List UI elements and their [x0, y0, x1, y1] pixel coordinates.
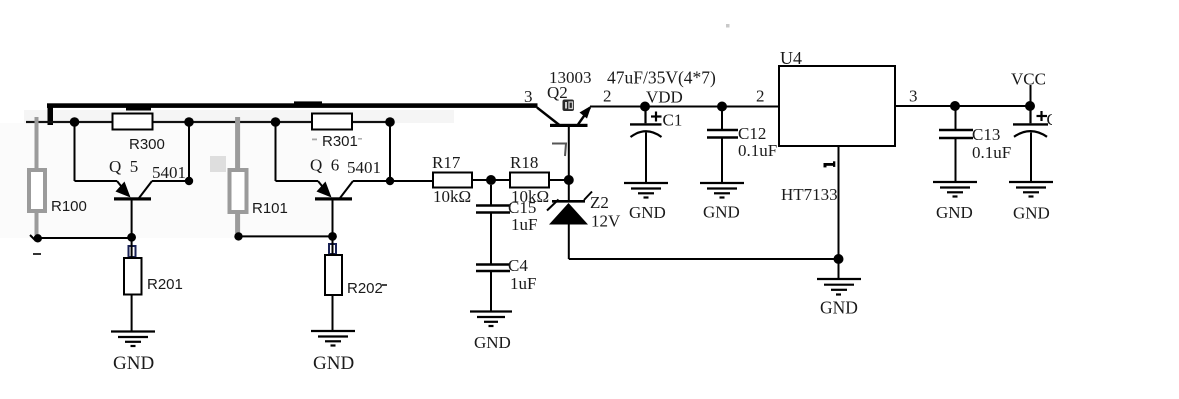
op-amp U4 regulator HT7133: [779, 66, 895, 146]
wire: thick bus overlap stroke above: [294, 101, 322, 104]
wire: Q6 collector to R17: [390, 180, 433, 182]
svg-text:C4: C4: [508, 256, 528, 275]
artifact mark above R201: [129, 246, 136, 257]
svg-text:U4: U4: [780, 48, 802, 68]
svg-text:1uF: 1uF: [510, 274, 536, 293]
Q5 base bar: [114, 197, 151, 200]
wire: base row Q5: [38, 237, 132, 239]
svg-text:1uF: 1uF: [511, 215, 537, 234]
Q6 emitter arrowhead: [317, 182, 332, 198]
capacitor C4: [476, 263, 510, 265]
Q5 base lead: [131, 200, 133, 237]
transistor Q5 (5401 PNP): [75, 122, 190, 198]
wire: U4 pin3: [895, 105, 1030, 107]
svg-text:VCC: VCC: [1011, 70, 1046, 89]
artifact mark above R202: [329, 244, 336, 254]
svg-text:R100: R100: [51, 198, 87, 215]
svg-text:R17: R17: [432, 153, 461, 172]
svg-text:Q 5: Q 5: [109, 157, 138, 176]
resistor R100 (grey): [29, 117, 45, 235]
wire: C1 to ground: [645, 133, 647, 184]
node A (74,122): [70, 117, 80, 127]
ground under C1: [624, 183, 668, 198]
Q5 collector corner node: [185, 177, 193, 185]
ground under R201: [111, 332, 155, 347]
wire: [490, 213, 492, 264]
svg-text:C1: C1: [663, 111, 683, 130]
svg-text:GND: GND: [1013, 204, 1050, 223]
capacitor C15: [490, 185, 492, 205]
resistor R101 (grey): [230, 117, 247, 233]
node C12: [717, 102, 727, 112]
Q2 emitter arrowhead: [580, 106, 592, 119]
resistor R17: [433, 173, 472, 188]
node: R100 bottom junction: [34, 234, 42, 242]
wire: R201 to ground: [131, 295, 133, 332]
pin 1 label (U4, rotated digit): [824, 161, 836, 167]
ground under C12: [700, 183, 744, 198]
svg-text:R18: R18: [510, 153, 538, 172]
resistor R202: [332, 240, 334, 255]
wire: [490, 271, 492, 312]
artifact glyph near Q2: [563, 100, 575, 112]
svg-text:10kΩ: 10kΩ: [433, 187, 471, 206]
svg-text:R101: R101: [252, 200, 288, 217]
svg-text:Z2: Z2: [590, 193, 609, 212]
transistor Q6 (5401 PNP): [276, 122, 391, 198]
svg-text:GND: GND: [474, 333, 511, 352]
ground under C14: [1009, 182, 1053, 197]
svg-text:HT7133: HT7133: [781, 185, 838, 204]
wire: VCC stub: [1030, 85, 1032, 106]
wire: thin top rail: [26, 121, 390, 123]
capacitor C14 (polar, cut at edge): [1029, 106, 1031, 123]
wire: VDD rail: [590, 106, 779, 108]
node VCC: [1025, 101, 1035, 111]
capacitor C1 (polar): [644, 107, 646, 124]
resistor R18: [510, 173, 549, 188]
wire: Z2 to U4 gnd rail: [569, 258, 839, 260]
node C13: [950, 101, 960, 111]
wire: thick top bus: [47, 103, 538, 108]
svg-text:GND: GND: [703, 203, 740, 222]
svg-text:VDD: VDD: [646, 88, 683, 107]
wire: U4 gnd pin: [838, 146, 840, 259]
svg-text:R202: R202: [347, 280, 383, 297]
Q6 collector corner node: [386, 177, 394, 185]
wire: [472, 179, 510, 181]
svg-text:5401: 5401: [347, 158, 381, 177]
zener diode Z2: [568, 180, 570, 202]
svg-text:2: 2: [603, 87, 612, 106]
Q2 base lead: [568, 127, 570, 180]
svg-text:GND: GND: [820, 298, 858, 318]
resistor R301: [312, 114, 352, 130]
svg-text:12V: 12V: [591, 212, 621, 231]
node B (189,122): [184, 117, 194, 127]
svg-text:GND: GND: [629, 203, 666, 222]
resistor R201: [131, 241, 133, 258]
ground under U4: [817, 279, 861, 295]
artifact tick after R202: [382, 284, 387, 286]
svg-text:GND: GND: [936, 203, 973, 222]
svg-text:GND: GND: [313, 353, 354, 374]
node A2 (275,122): [271, 117, 281, 127]
svg-text:R300: R300: [129, 136, 165, 153]
node: U4 gnd junction: [834, 254, 844, 264]
Q5 emitter arrowhead: [116, 182, 131, 198]
artifact ticks around R301 label: [312, 139, 317, 141]
node: Q6 base junction: [328, 232, 337, 241]
svg-text:3: 3: [524, 87, 533, 106]
node: R17/R18 junction: [486, 175, 496, 185]
wire: thick bus left stub: [48, 104, 54, 125]
Q6 base lead: [332, 200, 334, 236]
node B2 (390,122): [385, 117, 395, 127]
svg-text:Q 6: Q 6: [310, 156, 339, 175]
capacitor C13: [955, 106, 957, 130]
svg-text:5401: 5401: [152, 163, 186, 182]
svg-text:2: 2: [756, 87, 765, 106]
svg-text:47uF/35V(4*7): 47uF/35V(4*7): [607, 68, 716, 88]
svg-text:0.1uF: 0.1uF: [738, 141, 777, 160]
svg-text:C13: C13: [972, 125, 1000, 144]
node: R101 bottom junction: [234, 232, 242, 240]
ground under C4: [470, 312, 512, 327]
ground under R202: [311, 331, 355, 346]
transistor Q2 (13003 NPN): [537, 108, 560, 126]
svg-text:0.1uF: 0.1uF: [972, 143, 1011, 162]
svg-text:GND: GND: [113, 353, 154, 374]
svg-text:13003: 13003: [549, 68, 592, 87]
wire: [549, 179, 569, 181]
capacitor C12: [721, 107, 723, 130]
node: Q5 base junction: [127, 233, 136, 242]
wire: thick bus overlap stroke below: [126, 107, 151, 111]
svg-text:R301: R301: [322, 133, 358, 150]
ground under C13: [933, 182, 977, 197]
resistor R300: [113, 114, 153, 130]
svg-text:3: 3: [909, 87, 918, 106]
node: R18/Z2/Q2 junction: [564, 175, 574, 185]
svg-text:R201: R201: [147, 276, 183, 293]
Q6 base bar: [315, 197, 352, 200]
node VDD: [640, 102, 650, 112]
artifact 7-mark near Q2 base: [552, 144, 566, 157]
wire: base row Q6: [239, 235, 333, 237]
